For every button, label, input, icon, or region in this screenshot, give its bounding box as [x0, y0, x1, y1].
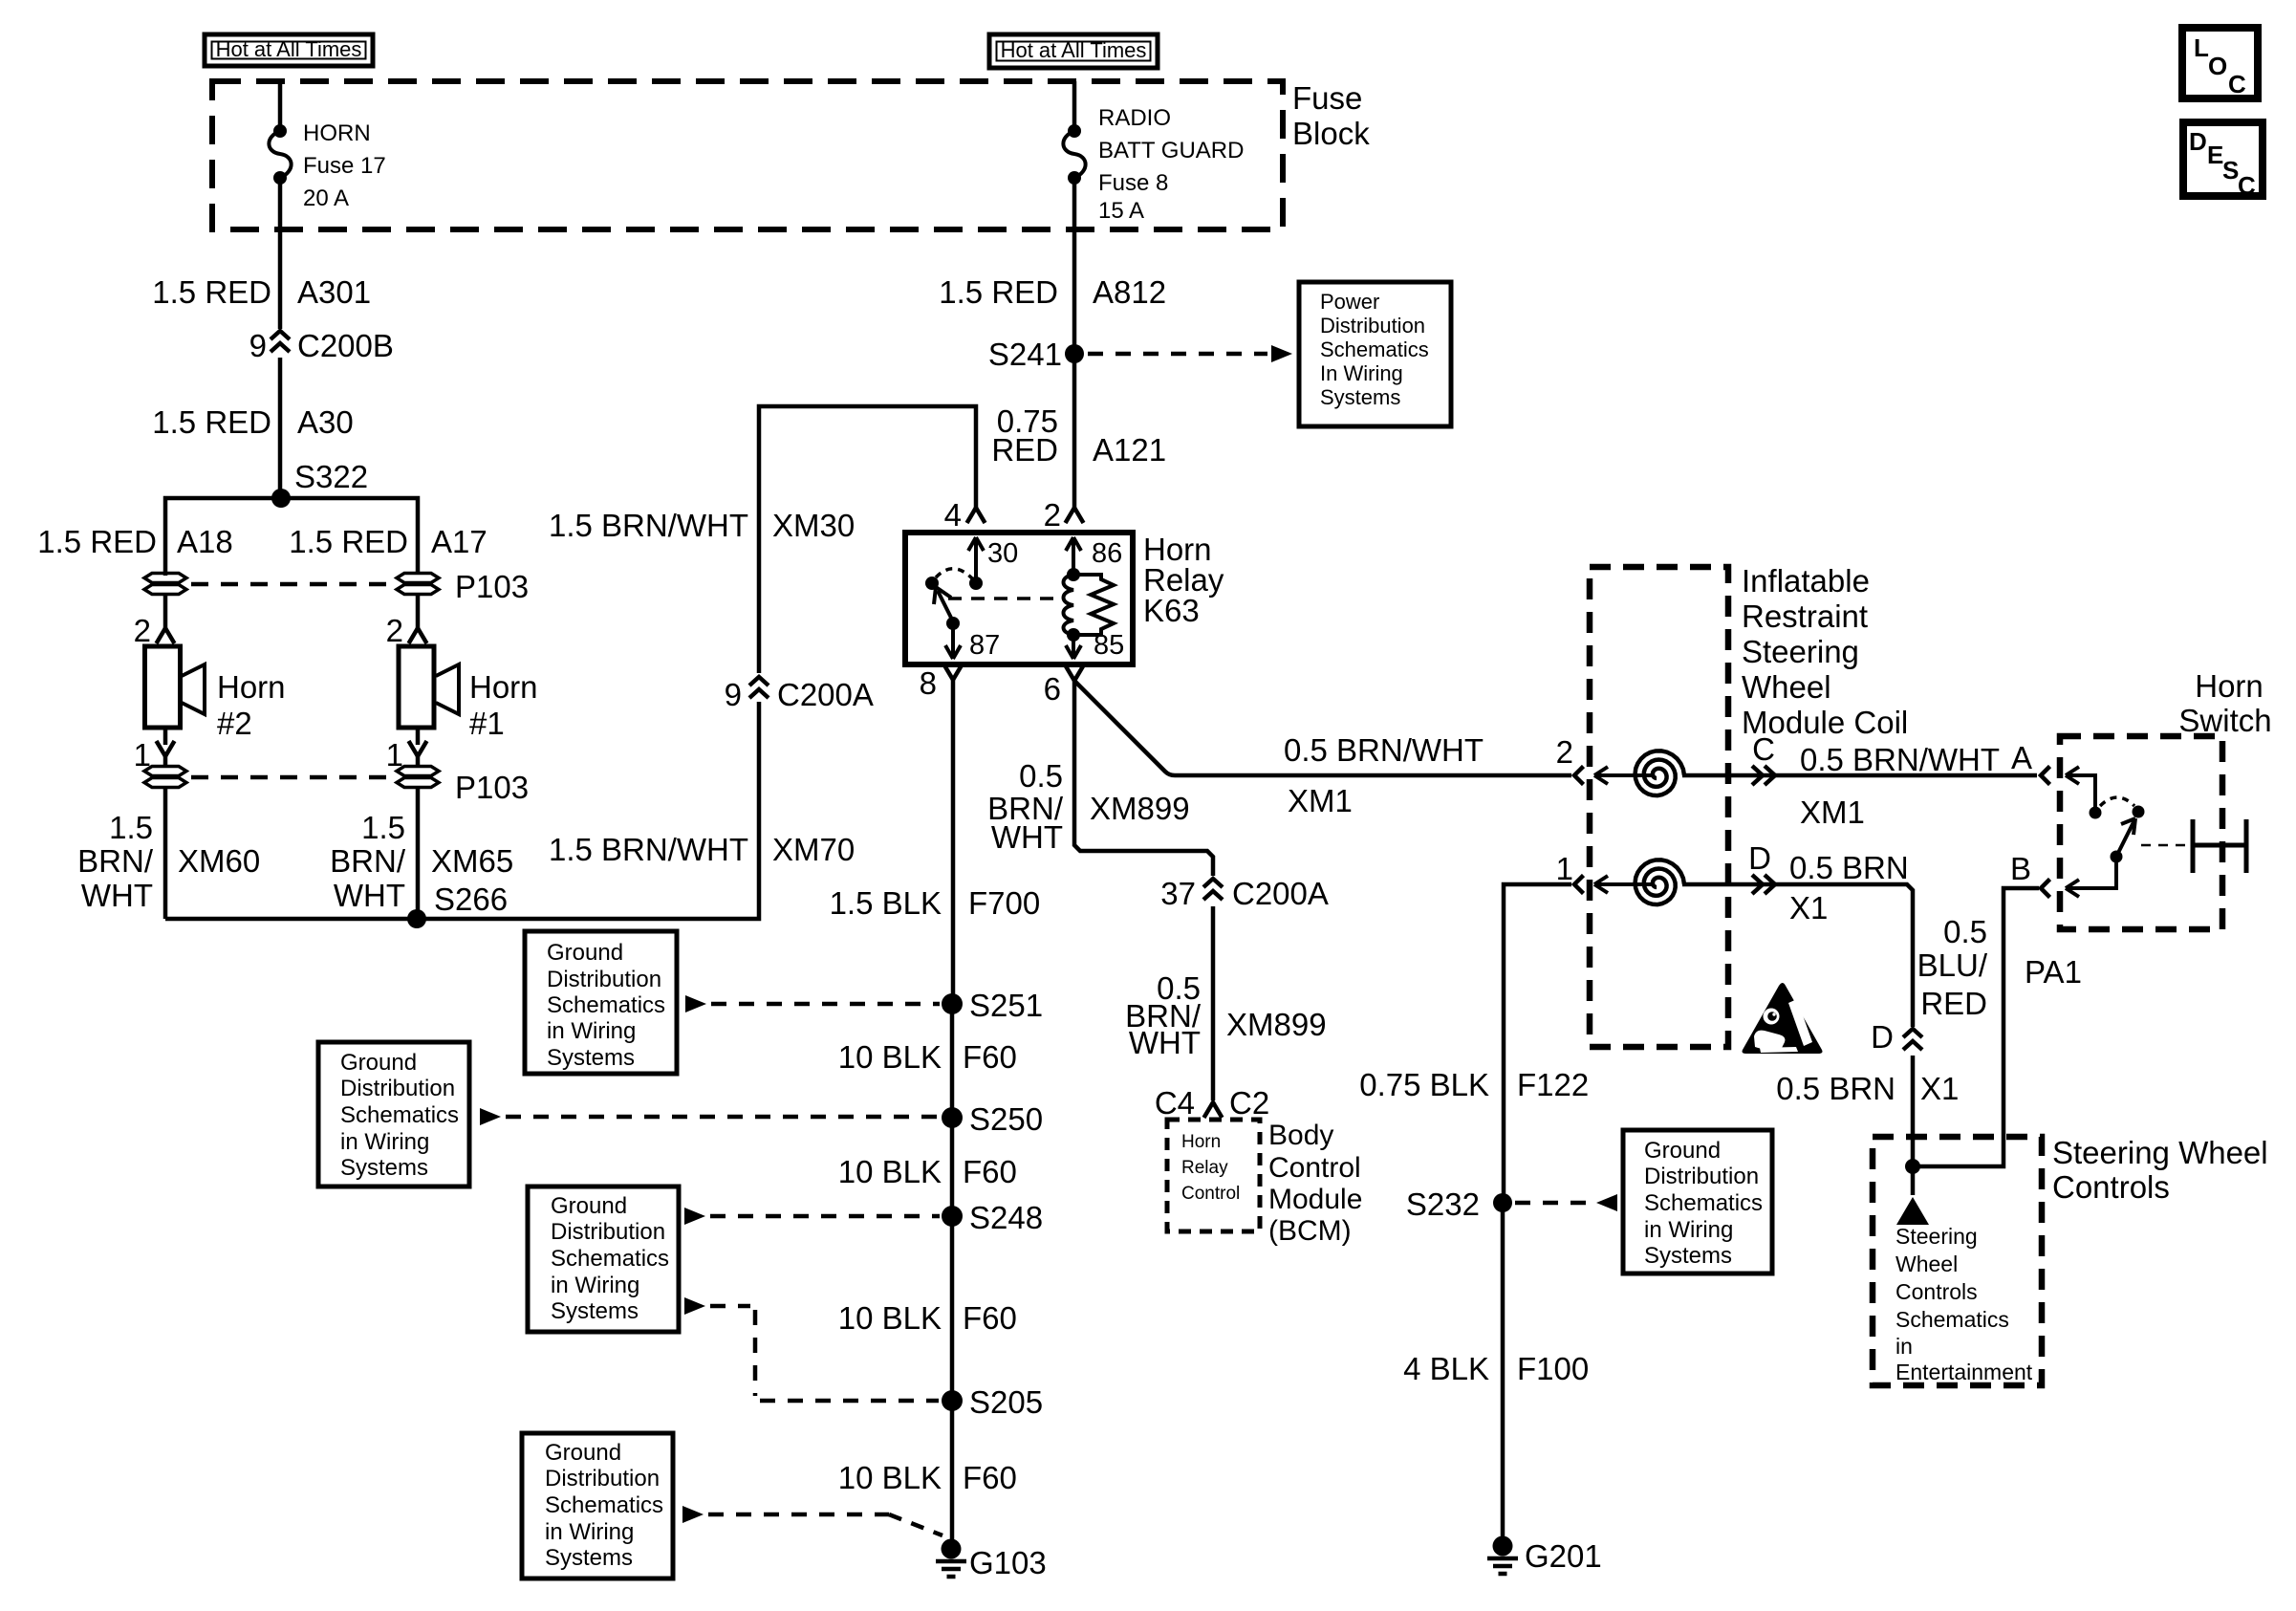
svg-text:10 BLK: 10 BLK: [838, 1300, 942, 1336]
splice S251: [942, 988, 1043, 1023]
svg-text:Switch: Switch: [2178, 703, 2271, 738]
power label box "Hot at All Times" (left): [205, 34, 373, 66]
grommet P103 (upper, horn #1 side): [397, 569, 529, 604]
svg-text:F100: F100: [1517, 1351, 1589, 1386]
svg-text:BLU/: BLU/: [1917, 947, 1988, 983]
svg-text:XM1: XM1: [1800, 795, 1865, 830]
wire F100 (S232 to G201): [1403, 1203, 1589, 1546]
svg-text:0.75 BLK: 0.75 BLK: [1359, 1067, 1489, 1102]
reference box: Ground Distribution Schematics in Wiring Systems (S250): [318, 1042, 469, 1186]
dashed grommet link (lower): [191, 775, 392, 780]
relay contact 87: [945, 623, 1000, 661]
dashed reference arrow from S232: [1515, 1194, 1617, 1211]
connector C200A pin 9: [725, 677, 874, 712]
horn #2: [145, 646, 286, 741]
wire F60 (S248-S205): [838, 1216, 1017, 1401]
wire XM1 (coil to horn switch pin A): [1682, 731, 2037, 830]
svg-text:BRN/: BRN/: [77, 843, 154, 879]
reference box: Ground Distribution Schematics in Wiring Systems (S248/S205): [528, 1186, 679, 1332]
horn switch (dashed box): [2060, 668, 2272, 929]
svg-text:8: 8: [920, 665, 937, 701]
svg-text:Power: Power: [1320, 290, 1379, 314]
svg-text:2: 2: [1044, 497, 1061, 533]
svg-text:S232: S232: [1406, 1186, 1480, 1222]
svg-text:XM60: XM60: [178, 843, 260, 879]
svg-text:37: 37: [1160, 876, 1196, 911]
svg-text:Systems: Systems: [340, 1155, 428, 1181]
wire to horn #1 pin 2: [386, 594, 427, 648]
svg-text:PA1: PA1: [2025, 954, 2082, 990]
svg-text:F60: F60: [963, 1154, 1017, 1189]
svg-text:S266: S266: [434, 882, 508, 917]
svg-text:Control: Control: [1268, 1152, 1361, 1184]
BCM pin C4/C2: [1155, 1085, 1269, 1121]
dashed reference arrow to S205: [684, 1297, 939, 1401]
svg-text:9: 9: [725, 677, 742, 712]
svg-text:X1: X1: [1789, 890, 1828, 925]
svg-text:in Wiring: in Wiring: [545, 1519, 634, 1545]
svg-text:Distribution: Distribution: [1644, 1164, 1759, 1189]
grommet P103 (lower, horn #2 side): [144, 767, 186, 788]
fuse block (dashed boundary): [212, 80, 1370, 229]
svg-text:Systems: Systems: [547, 1045, 635, 1071]
ground G103: [936, 1539, 1047, 1581]
svg-text:A812: A812: [1093, 274, 1166, 310]
svg-text:WHT: WHT: [81, 878, 153, 913]
reference triangle: Steering Wheel Controls Schematics in Entertainment: [1895, 1197, 2033, 1384]
svg-text:Controls: Controls: [1895, 1279, 1978, 1304]
svg-text:Horn: Horn: [1181, 1132, 1221, 1152]
svg-text:XM899: XM899: [1226, 1007, 1327, 1042]
svg-text:S205: S205: [969, 1384, 1043, 1420]
connector X1 pin D: [1871, 1019, 1922, 1055]
wire XM1 (relay pin 6 to coil pin 2): [1074, 681, 1571, 818]
svg-text:S248: S248: [969, 1200, 1043, 1235]
svg-text:XM899: XM899: [1090, 791, 1190, 826]
svg-text:D: D: [1871, 1019, 1894, 1055]
horn #1 pin 1: [386, 728, 427, 773]
coil pin 1 terminal: [1556, 851, 1636, 894]
svg-text:1.5 RED: 1.5 RED: [37, 524, 157, 559]
DESC legend box: [2183, 122, 2263, 200]
svg-text:D: D: [1748, 840, 1771, 876]
svg-text:K63: K63: [1143, 593, 1200, 628]
inflatable restraint steering wheel module coil (dashed box): [1590, 563, 1908, 1047]
wire A301 (fuse 17 to C200B): [152, 178, 371, 329]
svg-text:Steering: Steering: [1742, 634, 1859, 669]
svg-text:XM30: XM30: [772, 508, 855, 543]
svg-text:Schematics: Schematics: [1320, 337, 1429, 361]
body control module BCM (Horn Relay Control, dashed): [1167, 1120, 1362, 1247]
svg-text:0.5 BRN: 0.5 BRN: [1789, 850, 1909, 885]
wire XM30 (C200A to relay pin 4): [549, 406, 976, 673]
horn #1: [399, 646, 538, 741]
dashed reference arrow to S250: [480, 1108, 940, 1125]
svg-text:S: S: [2222, 156, 2239, 185]
wire F122 (coil pin 1 to S232): [1359, 884, 1589, 1203]
dashed reference arrow to S251: [685, 995, 940, 1012]
wire X1 (coil pin 1 to D connector): [1682, 840, 1913, 1027]
svg-text:Fuse: Fuse: [1292, 80, 1362, 116]
svg-text:Body: Body: [1268, 1120, 1333, 1151]
svg-text:Block: Block: [1292, 116, 1370, 151]
svg-text:4 BLK: 4 BLK: [1403, 1351, 1489, 1386]
svg-text:0.5 BRN/WHT: 0.5 BRN/WHT: [1800, 742, 2000, 777]
svg-text:Schematics: Schematics: [1644, 1190, 1763, 1216]
relay pin 8: [920, 664, 963, 701]
splice S232: [1406, 1186, 1512, 1222]
svg-text:WHT: WHT: [991, 819, 1063, 855]
wire F60 (S250-S248): [838, 1118, 1017, 1216]
svg-text:G103: G103: [969, 1545, 1047, 1580]
svg-text:Systems: Systems: [545, 1545, 633, 1571]
svg-text:Control: Control: [1181, 1184, 1240, 1204]
svg-text:XM1: XM1: [1288, 783, 1353, 818]
svg-text:Wheel: Wheel: [1742, 669, 1831, 705]
wire XM60: [77, 787, 260, 919]
svg-text:WHT: WHT: [1129, 1025, 1201, 1060]
wire XM899 (relay pin 6 down to C200A): [987, 681, 1213, 876]
svg-text:Systems: Systems: [551, 1298, 639, 1324]
svg-text:Wheel: Wheel: [1895, 1252, 1958, 1276]
dashed reference arrow to G103: [682, 1506, 942, 1535]
svg-text:HORN: HORN: [303, 120, 371, 146]
relay coil terminal 86: [1066, 537, 1122, 581]
svg-text:C200A: C200A: [1232, 876, 1329, 911]
svg-text:Systems: Systems: [1320, 385, 1400, 409]
horn switch pin B: [2010, 851, 2123, 898]
reference box: Ground Distribution Schematics in Wiring Systems (S232): [1623, 1130, 1772, 1274]
svg-text:Steering Wheel: Steering Wheel: [2052, 1135, 2268, 1170]
svg-text:S250: S250: [969, 1101, 1043, 1137]
svg-text:D: D: [2189, 127, 2207, 156]
svg-text:4: 4: [944, 497, 962, 533]
horn switch pin A: [2011, 740, 2102, 819]
svg-text:87: 87: [969, 630, 1000, 661]
svg-text:2: 2: [386, 613, 403, 648]
wire from Hot at All Times to fuse 17: [278, 81, 283, 131]
svg-text:0.5: 0.5: [1943, 914, 1987, 949]
svg-text:Relay: Relay: [1181, 1158, 1228, 1178]
dashed reference arrow to S248: [684, 1208, 940, 1225]
connector C200A pin 37: [1160, 876, 1329, 911]
relay pin 6: [1044, 665, 1084, 707]
power label box "Hot at All Times" (right): [989, 34, 1158, 68]
svg-text:1.5 BRN/WHT: 1.5 BRN/WHT: [549, 832, 748, 867]
svg-text:Ground: Ground: [547, 940, 623, 966]
svg-text:C4: C4: [1155, 1085, 1195, 1121]
svg-text:C: C: [1752, 731, 1775, 767]
svg-text:Fuse 17: Fuse 17: [303, 153, 386, 179]
svg-text:in Wiring: in Wiring: [340, 1129, 429, 1155]
splice S250: [942, 1101, 1043, 1137]
svg-text:1: 1: [1556, 851, 1573, 886]
svg-text:XM65: XM65: [431, 843, 513, 879]
svg-text:Restraint: Restraint: [1742, 599, 1868, 634]
svg-text:in Wiring: in Wiring: [547, 1018, 636, 1044]
steering wheel controls (dashed box): [1873, 1135, 2268, 1385]
svg-text:15 A: 15 A: [1098, 198, 1144, 224]
svg-text:F700: F700: [968, 885, 1040, 921]
svg-text:C200A: C200A: [777, 677, 874, 712]
wire X1 (D connector into steering wheel controls): [1776, 1056, 1959, 1166]
wire A17 label: [289, 524, 487, 559]
svg-text:Systems: Systems: [1644, 1243, 1732, 1269]
grommet P103 (upper, horn #2 side): [144, 574, 186, 595]
svg-text:10 BLK: 10 BLK: [838, 1039, 942, 1075]
svg-text:WHT: WHT: [334, 878, 405, 913]
LOC legend box: [2182, 28, 2258, 98]
junction inside steering wheel controls: [1905, 1159, 1920, 1195]
svg-text:Distribution: Distribution: [340, 1076, 455, 1101]
svg-text:F60: F60: [963, 1300, 1017, 1336]
horn switch pushbutton actuator: [2141, 819, 2246, 873]
coil spiral (upper, XM1 circuit): [1625, 773, 1654, 777]
svg-text:C: C: [2228, 70, 2246, 98]
relay coil winding: [1064, 575, 1074, 635]
svg-text:Steering: Steering: [1895, 1224, 1978, 1249]
svg-text:6: 6: [1044, 671, 1061, 707]
svg-text:10 BLK: 10 BLK: [838, 1154, 942, 1189]
svg-text:Distribution: Distribution: [545, 1466, 660, 1491]
relay switch arm (30/87): [925, 569, 972, 630]
reference box: Power Distribution Schematics In Wiring Systems: [1299, 282, 1451, 426]
svg-text:RADIO: RADIO: [1098, 105, 1171, 131]
svg-text:O: O: [2208, 52, 2227, 80]
wire XM70 (S266 run): [165, 702, 855, 919]
svg-text:X1: X1: [1920, 1071, 1959, 1106]
relay coil suppression resistor: [1073, 575, 1114, 635]
svg-text:86: 86: [1092, 538, 1122, 569]
svg-text:G201: G201: [1525, 1538, 1602, 1574]
wire A121 (S241 to relay pin 2): [991, 354, 1166, 508]
svg-text:RED: RED: [991, 432, 1058, 468]
svg-text:Horn: Horn: [2195, 668, 2264, 704]
svg-text:1.5 RED: 1.5 RED: [289, 524, 408, 559]
svg-text:BRN/: BRN/: [330, 843, 406, 879]
wire A812 (fuse 8 to S241): [939, 178, 1166, 354]
svg-text:in Wiring: in Wiring: [551, 1273, 639, 1298]
svg-text:Module: Module: [1268, 1184, 1362, 1215]
wire A18 label: [37, 524, 232, 559]
svg-text:F122: F122: [1517, 1067, 1589, 1102]
ground G201: [1487, 1536, 1602, 1575]
svg-text:0.5 BRN: 0.5 BRN: [1776, 1071, 1895, 1106]
svg-text:Hot at All Times: Hot at All Times: [1001, 38, 1147, 62]
svg-text:#1: #1: [469, 706, 505, 741]
svg-text:A: A: [2011, 740, 2032, 775]
relay coil terminal 85: [1066, 628, 1124, 661]
svg-text:BATT GUARD: BATT GUARD: [1098, 138, 1244, 163]
fuse F8 RADIO BATT GUARD 15A: [1063, 105, 1244, 224]
horn relay K63: [905, 532, 1224, 664]
splice S241: [988, 337, 1084, 372]
wire A18/A17 header run: [165, 498, 418, 576]
svg-text:2: 2: [1556, 734, 1573, 770]
svg-text:S322: S322: [294, 459, 368, 494]
svg-text:10 BLK: 10 BLK: [838, 1460, 942, 1495]
svg-text:1.5 RED: 1.5 RED: [152, 404, 271, 440]
fuse F17 HORN 20A: [269, 120, 385, 211]
relay contact 30: [968, 537, 1018, 590]
wire F700 (relay pin 8 down): [830, 680, 1041, 1004]
svg-text:P103: P103: [455, 770, 529, 805]
svg-text:2: 2: [134, 613, 151, 648]
svg-text:1.5: 1.5: [361, 810, 405, 845]
svg-text:0.5: 0.5: [1019, 758, 1063, 794]
svg-text:C: C: [2238, 171, 2256, 200]
svg-text:A18: A18: [177, 524, 233, 559]
svg-text:A30: A30: [297, 404, 354, 440]
svg-text:In Wiring: In Wiring: [1320, 361, 1403, 385]
SRS airbag warning triangle: [1743, 983, 1823, 1054]
coil pin 2 terminal: [1556, 734, 1636, 785]
svg-text:Distribution: Distribution: [551, 1219, 665, 1245]
svg-text:in: in: [1895, 1334, 1913, 1359]
svg-text:Ground: Ground: [545, 1440, 621, 1466]
svg-text:XM70: XM70: [772, 832, 855, 867]
dashed reference arrow from S241: [1088, 345, 1292, 362]
svg-text:Ground: Ground: [340, 1050, 417, 1076]
horn switch contact arm: [2100, 797, 2145, 857]
svg-text:Distribution: Distribution: [1320, 314, 1425, 337]
svg-text:Horn: Horn: [469, 669, 538, 705]
svg-text:Ground: Ground: [1644, 1138, 1721, 1164]
wire XM65: [330, 787, 513, 919]
wire F60 (S205 to G103): [838, 1401, 1017, 1549]
wire to horn #2 pin 2: [134, 594, 175, 648]
svg-text:B: B: [2010, 851, 2031, 886]
svg-text:F60: F60: [963, 1039, 1017, 1075]
wire PA1 (horn switch pin B to steering wheel controls): [1917, 888, 2082, 1166]
svg-text:A17: A17: [431, 524, 487, 559]
svg-text:C200B: C200B: [297, 328, 394, 363]
svg-text:C2: C2: [1229, 1085, 1269, 1121]
svg-text:Schematics: Schematics: [547, 992, 665, 1018]
wire F60 (S251-S250): [838, 1004, 1017, 1118]
svg-text:RED: RED: [1920, 986, 1987, 1021]
dashed grommet link (upper): [191, 582, 392, 587]
svg-text:Schematics: Schematics: [551, 1246, 669, 1272]
connector C200B pin 9: [249, 328, 394, 363]
svg-text:F60: F60: [963, 1460, 1017, 1495]
svg-text:Schematics: Schematics: [340, 1102, 459, 1128]
svg-text:1.5 BRN/WHT: 1.5 BRN/WHT: [549, 508, 748, 543]
svg-text:in Wiring: in Wiring: [1644, 1217, 1733, 1243]
svg-text:A301: A301: [297, 274, 371, 310]
svg-text:9: 9: [249, 328, 267, 363]
reference box: Ground Distribution Schematics in Wiring Systems (S251): [525, 931, 677, 1074]
svg-text:1.5: 1.5: [109, 810, 153, 845]
svg-text:Inflatable: Inflatable: [1742, 563, 1870, 599]
reference box: Ground Distribution Schematics in Wiring Systems (G103): [522, 1433, 673, 1578]
svg-text:Horn: Horn: [217, 669, 286, 705]
svg-text:A121: A121: [1093, 432, 1166, 468]
svg-text:85: 85: [1094, 630, 1124, 661]
svg-text:E: E: [2207, 141, 2223, 169]
svg-text:20 A: 20 A: [303, 185, 349, 211]
relay pin 4: [944, 497, 986, 533]
splice S322: [271, 459, 368, 508]
svg-text:S251: S251: [969, 988, 1043, 1023]
relay internal dashed link: [948, 597, 1063, 600]
svg-text:Controls: Controls: [2052, 1169, 2170, 1205]
svg-text:Schematics: Schematics: [1895, 1307, 2009, 1332]
svg-text:L: L: [2194, 33, 2209, 62]
svg-text:Schematics: Schematics: [545, 1492, 663, 1518]
grommet P103 (lower, horn #1 side): [397, 767, 529, 806]
relay pin 2: [1044, 497, 1084, 533]
svg-text:Fuse 8: Fuse 8: [1098, 170, 1168, 196]
splice S266: [407, 882, 508, 928]
svg-text:1.5 RED: 1.5 RED: [939, 274, 1058, 310]
wire XM899 (C200A to BCM): [1125, 906, 1326, 1100]
splice S205: [942, 1384, 1043, 1420]
splice S248: [942, 1200, 1043, 1235]
coil spiral (lower, X1 circuit): [1625, 882, 1654, 886]
svg-text:1.5 RED: 1.5 RED: [152, 274, 271, 310]
wire A30 (C200B to S322): [152, 358, 353, 498]
svg-text:Hot at All Times: Hot at All Times: [216, 37, 362, 61]
svg-text:Distribution: Distribution: [547, 967, 661, 992]
svg-text:#2: #2: [217, 706, 252, 741]
wire from Hot at All Times to fuse 8: [1072, 81, 1077, 131]
svg-text:30: 30: [987, 538, 1018, 569]
horn #2 pin 1: [134, 728, 175, 773]
svg-text:0.5 BRN/WHT: 0.5 BRN/WHT: [1284, 732, 1484, 768]
svg-text:Entertainment: Entertainment: [1895, 1360, 2033, 1384]
svg-text:Ground: Ground: [551, 1193, 627, 1219]
svg-text:S241: S241: [988, 337, 1062, 372]
svg-text:P103: P103: [455, 569, 529, 604]
svg-text:(BCM): (BCM): [1268, 1215, 1352, 1247]
svg-text:1.5 BLK: 1.5 BLK: [830, 885, 942, 921]
